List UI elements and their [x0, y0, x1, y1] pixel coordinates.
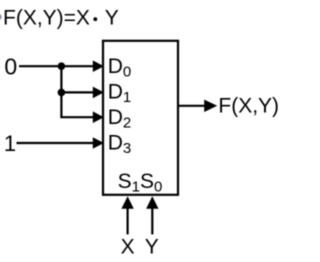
svg-text:F(X,Y)=XY: F(X,Y)=XY: [3, 6, 119, 29]
svg-text:D1: D1: [108, 80, 132, 106]
svg-text:1: 1: [4, 131, 16, 156]
svg-text:X: X: [121, 236, 135, 259]
svg-text:F(X,Y): F(X,Y): [218, 95, 279, 118]
svg-text:D0: D0: [108, 55, 132, 81]
svg-text:S1S0: S1S0: [118, 170, 163, 196]
svg-text:0: 0: [4, 54, 17, 80]
svg-text:D2: D2: [108, 106, 132, 132]
svg-text:Y: Y: [145, 236, 159, 259]
svg-text:D3: D3: [108, 131, 132, 157]
